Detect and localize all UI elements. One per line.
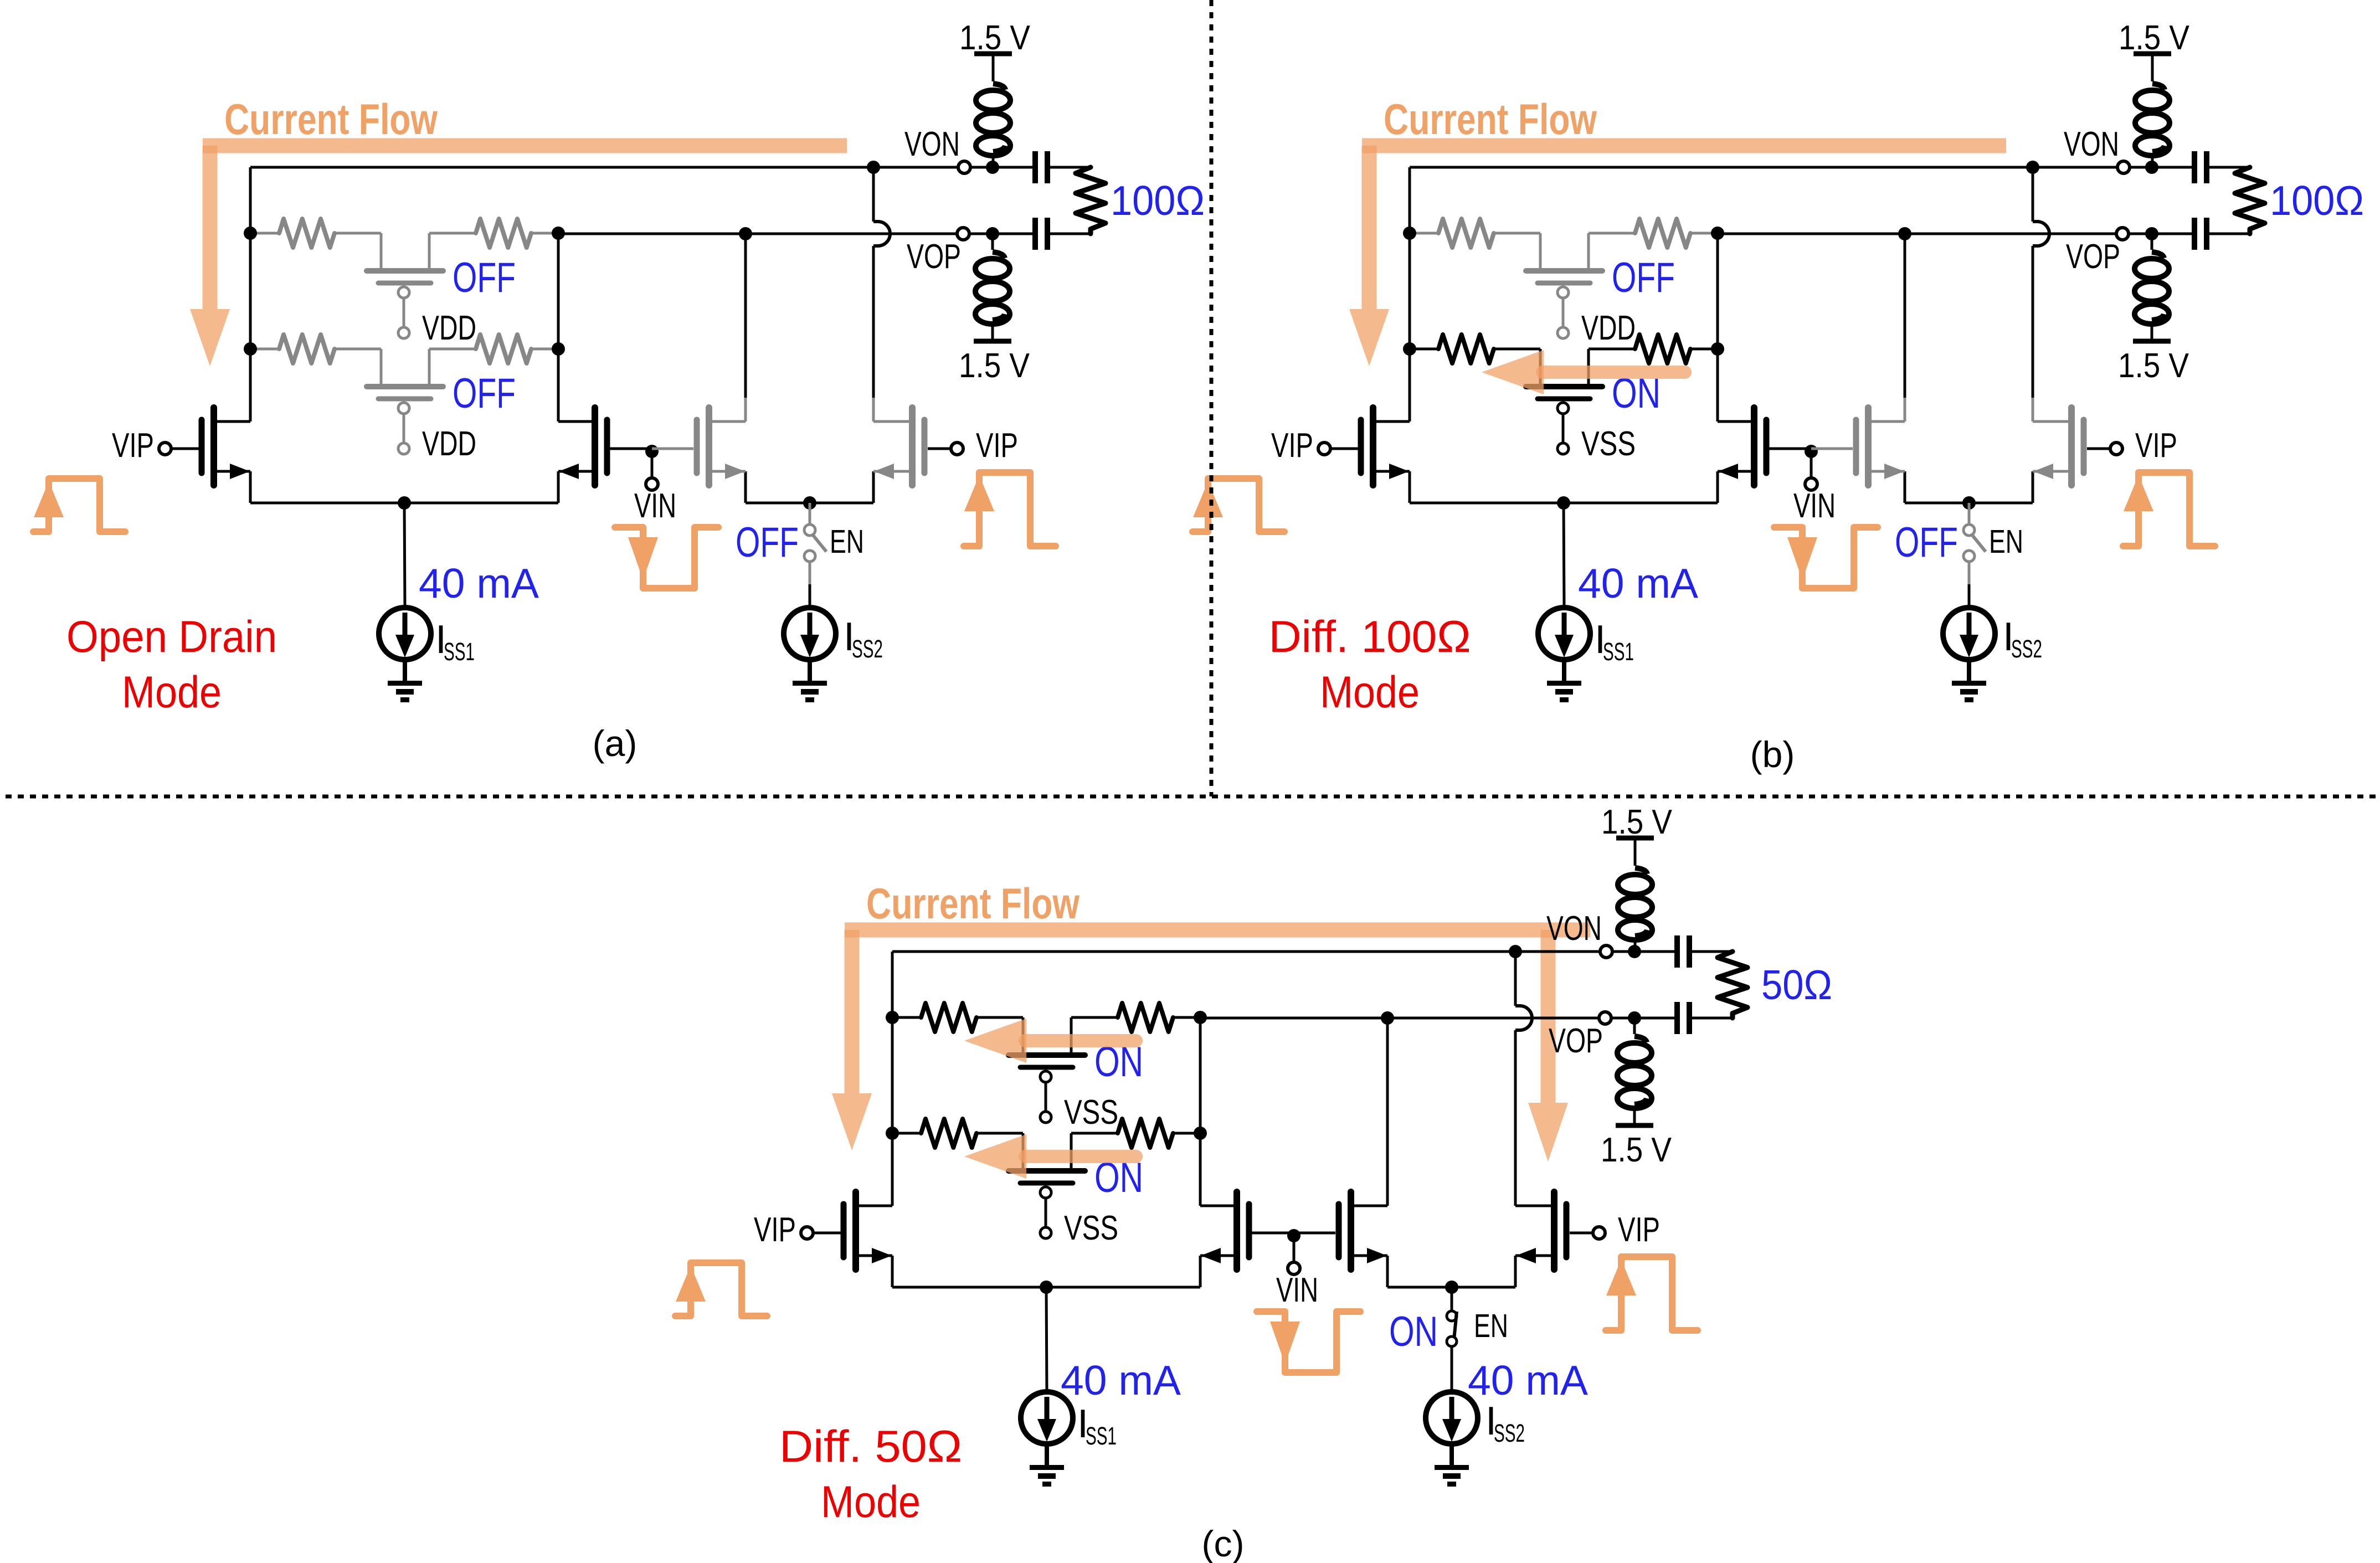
svg-text:VIP: VIP [754, 1211, 796, 1249]
svg-text:1.5 V: 1.5 V [2118, 347, 2189, 385]
svg-text:Diff. 100Ω: Diff. 100Ω [1269, 612, 1471, 662]
svg-text:40 mA: 40 mA [1468, 1357, 1588, 1403]
svg-text:EN: EN [830, 523, 864, 560]
svg-text:VIP: VIP [976, 426, 1018, 465]
svg-text:Current Flow: Current Flow [866, 879, 1080, 928]
svg-text:VSS: VSS [1064, 1093, 1118, 1132]
svg-text:1.5 V: 1.5 V [959, 347, 1030, 385]
svg-text:VOP: VOP [907, 238, 961, 276]
svg-text:VSS: VSS [1581, 425, 1636, 463]
svg-text:VSS: VSS [1064, 1209, 1118, 1247]
svg-text:VIP: VIP [1618, 1211, 1660, 1249]
svg-text:OFF: OFF [453, 370, 516, 417]
svg-text:1.5 V: 1.5 V [959, 19, 1031, 57]
svg-text:1.5 V: 1.5 V [1601, 803, 1673, 841]
svg-text:Mode: Mode [1320, 667, 1420, 717]
svg-text:SS1: SS1 [1603, 637, 1634, 666]
svg-text:VIP: VIP [2135, 426, 2177, 465]
svg-text:(c): (c) [1202, 1523, 1245, 1563]
svg-text:ON: ON [1389, 1308, 1438, 1355]
svg-text:(a): (a) [593, 723, 638, 764]
svg-text:Mode: Mode [821, 1477, 921, 1527]
svg-text:VOP: VOP [2066, 238, 2120, 276]
svg-text:Mode: Mode [122, 667, 222, 717]
svg-text:100Ω: 100Ω [2270, 177, 2364, 224]
svg-text:OFF: OFF [736, 519, 799, 566]
svg-text:SS1: SS1 [1086, 1422, 1117, 1450]
svg-text:VDD: VDD [422, 425, 476, 463]
svg-text:OFF: OFF [1895, 519, 1958, 566]
svg-text:40 mA: 40 mA [419, 560, 539, 606]
svg-text:VIN: VIN [1793, 487, 1836, 525]
svg-text:100Ω: 100Ω [1111, 177, 1205, 224]
svg-text:VON: VON [2064, 125, 2119, 163]
svg-text:VDD: VDD [1581, 309, 1636, 347]
svg-text:VIN: VIN [1276, 1271, 1318, 1309]
svg-text:SS2: SS2 [1494, 1419, 1525, 1447]
svg-text:Open Drain: Open Drain [66, 612, 277, 662]
svg-text:VDD: VDD [422, 309, 476, 347]
svg-text:EN: EN [1989, 523, 2023, 560]
svg-text:50Ω: 50Ω [1761, 962, 1832, 1008]
svg-text:SS2: SS2 [852, 635, 883, 663]
svg-text:EN: EN [1474, 1308, 1508, 1344]
svg-text:OFF: OFF [1612, 254, 1675, 301]
svg-text:SS1: SS1 [444, 637, 475, 666]
svg-text:(b): (b) [1750, 734, 1795, 775]
svg-text:VOP: VOP [1549, 1022, 1603, 1060]
svg-text:40 mA: 40 mA [1061, 1357, 1181, 1403]
svg-text:VON: VON [904, 125, 960, 163]
svg-text:40 mA: 40 mA [1578, 560, 1698, 606]
svg-text:VIP: VIP [112, 426, 154, 465]
svg-text:VIP: VIP [1271, 426, 1313, 465]
svg-text:VIN: VIN [634, 487, 676, 525]
svg-text:OFF: OFF [453, 254, 516, 301]
svg-text:Current Flow: Current Flow [1384, 95, 1597, 143]
svg-text:Diff. 50Ω: Diff. 50Ω [779, 1422, 962, 1472]
svg-text:1.5 V: 1.5 V [2119, 19, 2190, 57]
svg-text:VON: VON [1546, 909, 1602, 948]
svg-text:SS2: SS2 [2011, 635, 2042, 663]
svg-text:1.5 V: 1.5 V [1601, 1131, 1672, 1169]
svg-text:Current Flow: Current Flow [224, 95, 438, 143]
